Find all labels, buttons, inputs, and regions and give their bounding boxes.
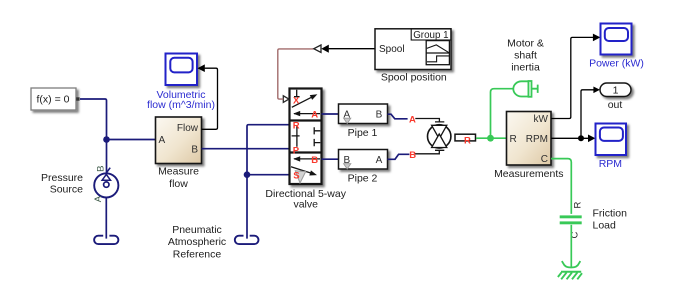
valve label R (293, 121, 300, 132)
svg-text:A: A (93, 195, 104, 202)
wire: Pipe 1 output stub (388, 114, 408, 119)
svg-text:Pipe 2: Pipe 2 (348, 172, 378, 184)
label: Pipe 2 (348, 172, 378, 184)
svg-text:flow: flow (169, 178, 188, 190)
svg-text:X: X (293, 96, 300, 107)
label: out (608, 99, 623, 111)
label: Pipe 1 (348, 127, 378, 139)
arrow into Power scope (593, 34, 601, 42)
label: Measure flow (158, 166, 199, 190)
valve A flow arrow (293, 111, 320, 116)
valve middle-right blocked ports (314, 127, 320, 146)
label: Volumetric flow (m^3/min) (147, 89, 215, 111)
valve label B (internal) (311, 155, 318, 166)
valve middle-left blocked port (292, 126, 300, 147)
wire: node A down to Pressure Source port B (107, 140, 111, 173)
green junction dot (487, 135, 494, 142)
Pressure Source (93, 166, 118, 203)
svg-text:Flow: Flow (177, 123, 199, 134)
svg-text:f(x) = 0: f(x) = 0 (37, 93, 70, 105)
green shaft wire: motor R to Measurements (476, 137, 507, 139)
Motor & shaft inertia symbol (513, 81, 537, 97)
svg-text:S: S (293, 170, 299, 181)
svg-text:flow (m^3/min): flow (m^3/min) (147, 99, 215, 111)
svg-text:Friction: Friction (593, 207, 628, 219)
wire: S branch (247, 174, 290, 176)
svg-text:B: B (311, 155, 318, 166)
svg-text:Group 1: Group 1 (413, 30, 448, 41)
svg-text:R: R (464, 136, 471, 147)
input arrow into Volumetric flow scope (197, 64, 204, 72)
wire: kW to Power scope (551, 37, 593, 118)
scope: RPM (596, 124, 627, 156)
wire: solver output to node A (80, 99, 107, 140)
scope: Power (kW) (601, 24, 632, 55)
svg-text:Motor &: Motor & (507, 38, 544, 50)
solid arrow into spool tap (321, 45, 329, 53)
wire: Measure flow B to valve P (202, 148, 290, 150)
black junction dot (578, 135, 584, 141)
green wire: Friction Load to ground (570, 225, 572, 267)
wire: node A to Measure flow port A (107, 139, 156, 141)
valve top diagonal arrow (292, 92, 319, 107)
label: Measurements (494, 168, 563, 180)
svg-text:P: P (293, 145, 300, 156)
svg-text:out: out (608, 99, 623, 111)
Measurements block (507, 112, 552, 166)
wire: valve B to Pipe 2 (322, 158, 339, 160)
label: Spool position (381, 72, 447, 84)
Pipe 1 block (339, 104, 388, 124)
arrow into RPM scope (588, 135, 595, 143)
solver block f(x)=0 (31, 88, 80, 110)
wire: to motor top port (415, 119, 444, 122)
Directional 5-way valve block (290, 89, 322, 185)
svg-text:R: R (572, 202, 583, 209)
pneumatic motor (428, 125, 476, 148)
svg-text:1: 1 (613, 85, 619, 97)
svg-text:A: A (311, 109, 318, 120)
svg-text:kW: kW (534, 114, 549, 125)
svg-text:Source: Source (50, 184, 83, 196)
junction dot on S branch (244, 171, 251, 178)
valve label S (293, 170, 299, 181)
svg-text:Measurements: Measurements (494, 168, 563, 180)
valve pilot tick (top) (294, 90, 300, 97)
green wire up to inertia (491, 89, 514, 139)
svg-text:Measure: Measure (158, 166, 199, 178)
svg-text:Reference: Reference (173, 248, 222, 260)
valve label A (internal) (311, 109, 318, 120)
pneumatic reference capsule (left) (94, 236, 118, 244)
svg-text:A: A (376, 155, 383, 166)
wire: Pipe 2 output to motor bottom port (415, 150, 445, 154)
wire: Pipe 2 output stub (388, 154, 410, 159)
mechanical rotational reference (green ground) (558, 261, 582, 279)
physical signal wire to valve X (278, 49, 314, 99)
outport block "out" (600, 83, 631, 97)
svg-text:valve: valve (293, 199, 318, 211)
svg-text:C: C (541, 154, 548, 165)
svg-text:Pipe 1: Pipe 1 (348, 127, 378, 139)
svg-text:RPM: RPM (599, 158, 622, 170)
svg-text:R: R (293, 121, 300, 132)
svg-text:B: B (95, 166, 106, 172)
svg-text:inertia: inertia (511, 61, 540, 73)
arrow into out port (593, 87, 600, 94)
valve X input triangle (283, 96, 289, 103)
svg-text:Load: Load (593, 220, 617, 232)
Spool position scope block (375, 29, 451, 70)
valve label P (293, 145, 300, 156)
valve label X (293, 96, 300, 107)
label: Friction Load (593, 207, 628, 231)
svg-text:Pneumatic: Pneumatic (172, 224, 222, 236)
svg-text:Pressure: Pressure (41, 172, 83, 184)
wire: junction up to out port (581, 90, 594, 139)
scope: Volumetric flow (166, 54, 198, 86)
Pipe 2 block (339, 150, 388, 170)
svg-text:R: R (510, 134, 517, 145)
wire: Pressure Source A to atmospheric port (105, 198, 107, 239)
valve B flow arrow (293, 156, 320, 161)
label: RPM (599, 158, 622, 170)
pneumatic reference capsule (right) (235, 236, 259, 244)
valve gray S marker (295, 171, 305, 183)
svg-text:A: A (159, 135, 166, 146)
Measure flow block (156, 117, 202, 164)
svg-text:B: B (409, 150, 416, 161)
node A junction dot (103, 136, 110, 143)
svg-text:A: A (409, 115, 416, 126)
Friction Load spring-damper (560, 202, 584, 239)
valve bottom diagonal arrow (291, 167, 318, 178)
connection label B (red) (409, 150, 416, 161)
connection label A (red) (409, 115, 416, 126)
label: Pneumatic Atmospheric Reference (168, 224, 226, 261)
wire: valve A to Pipe 1 (322, 113, 339, 115)
svg-text:RPM: RPM (526, 134, 548, 145)
svg-text:B: B (191, 144, 198, 155)
label: Power (kW) (589, 58, 644, 70)
green wire: C port down to Friction Load (551, 159, 571, 214)
svg-text:Spool: Spool (379, 44, 405, 55)
svg-text:shaft: shaft (514, 50, 537, 62)
label: Pressure Source (41, 172, 83, 195)
label: Motor & shaft inertia (507, 38, 544, 74)
wire: Measure flow Flow port to scope (202, 68, 218, 129)
connection label R (red) (464, 136, 471, 147)
svg-text:B: B (376, 110, 383, 121)
wire: atmospheric vertical line with R branch (247, 125, 290, 239)
wire: to Spool position scope (329, 48, 375, 50)
svg-text:Atmospheric: Atmospheric (168, 236, 226, 248)
svg-text:Power (kW): Power (kW) (589, 58, 644, 70)
svg-text:Spool position: Spool position (381, 72, 447, 84)
hollow PS arrow near spool tap (314, 45, 321, 52)
wire: RPM to RPM scope (551, 137, 588, 139)
label: Directional 5-way valve (265, 188, 346, 211)
